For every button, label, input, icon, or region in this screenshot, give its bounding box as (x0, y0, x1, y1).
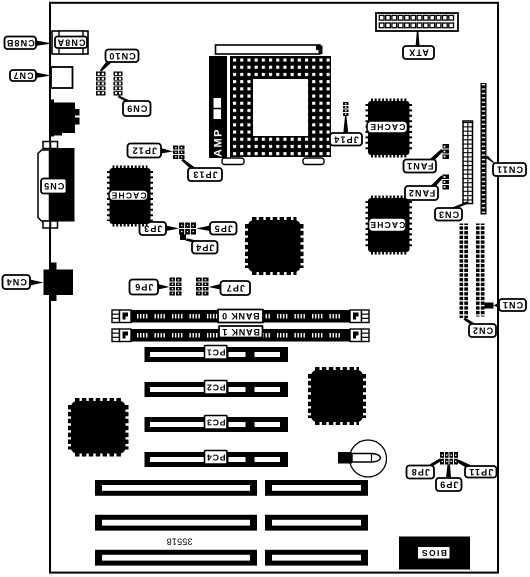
jumper block JP7 (196, 278, 209, 296)
pin header CN10 (96, 72, 106, 96)
svg-text:PC1: PC1 (206, 347, 226, 357)
label JP7 (221, 281, 251, 295)
label FAN1 (404, 160, 437, 173)
label CN8B (5, 37, 37, 50)
connector CN4 (44, 263, 74, 302)
label CN9 (123, 101, 151, 116)
label JP5 (210, 222, 237, 235)
svg-text:JP4: JP4 (195, 242, 214, 252)
chip CACHE U2 (mid right) (368, 198, 411, 253)
label JP8 (407, 466, 435, 479)
leader line to CN10 (100, 62, 112, 72)
connector CN11 (single row pin strip) (481, 83, 487, 215)
label JP9 (436, 478, 462, 491)
svg-text:BANK 1: BANK 1 (222, 327, 260, 337)
svg-text:35518: 35518 (166, 537, 192, 547)
svg-text:JP11: JP11 (468, 467, 493, 477)
svg-text:PC3: PC3 (206, 417, 226, 427)
leader line to CN1 (494, 303, 500, 309)
leader line to FAN1 (429, 149, 444, 160)
svg-text:JP9: JP9 (439, 480, 458, 490)
label JP14 (330, 133, 362, 146)
leader line to JP5 (196, 226, 210, 232)
svg-text:FAN1: FAN1 (406, 161, 433, 171)
CPU socket feet (222, 158, 324, 165)
chip CACHE U3 (left) (109, 168, 151, 225)
fan header FAN2 (443, 175, 450, 190)
leader line to CN9 (118, 96, 131, 102)
label CN3 (435, 208, 462, 221)
jumper block JP3/JP4/JP5 (179, 223, 196, 235)
jumper JP4 extra cell (180, 235, 186, 241)
label FAN2 (405, 186, 438, 200)
ISA slot row 1 right segment (265, 480, 368, 496)
label JP12 (128, 144, 162, 158)
leader line to JP11 (457, 460, 472, 468)
ISA slot row 1 left segment (95, 480, 257, 496)
leader line to JP7 (209, 284, 221, 290)
label JP3 (140, 222, 167, 235)
svg-text:CN10: CN10 (108, 51, 135, 61)
label CN8A (55, 37, 87, 49)
pin header CN9 (114, 72, 123, 96)
svg-text:CN1: CN1 (502, 300, 523, 310)
label CN11 (493, 163, 526, 176)
connector CN3 strip (white grid) (463, 121, 473, 204)
PCI slot PC4 (145, 452, 289, 467)
connector CN2 strip (460, 224, 469, 319)
svg-text:CN3: CN3 (438, 209, 459, 219)
svg-text:CN7: CN7 (12, 71, 33, 81)
label BANK 1 (219, 326, 263, 338)
CPU socket lever bar (216, 45, 323, 54)
connector CN5 (DB25 parallel port) (38, 142, 75, 229)
label CN4 (3, 275, 31, 289)
leader line to CN11 (486, 156, 499, 168)
leader line to FAN2 (430, 176, 444, 187)
svg-text:JP13: JP13 (192, 170, 217, 180)
jumper block JP14 (343, 102, 349, 116)
leader line to JP14 (343, 116, 348, 133)
svg-text:CACHE: CACHE (110, 190, 146, 200)
PCI slot PC2 (145, 382, 289, 397)
label JP6 (130, 280, 159, 295)
label JP13 (188, 168, 222, 181)
leader line to JP8 (428, 459, 442, 466)
label ATX (403, 46, 434, 59)
connector CN8A (keyboard) (52, 31, 88, 54)
chip chipset U6 (70, 400, 127, 455)
label PC4 (205, 451, 228, 465)
leader line to JP3 (166, 226, 179, 232)
svg-text:JP12: JP12 (132, 146, 157, 156)
svg-text:AMP: AMP (213, 128, 225, 157)
svg-text:JP5: JP5 (214, 223, 233, 233)
connector CN7 (white square) (51, 67, 73, 88)
svg-text:FAN2: FAN2 (408, 188, 435, 198)
ISA slot row 3 left segment (95, 550, 257, 566)
label CN5 (41, 179, 67, 194)
svg-text:BIOS: BIOS (421, 548, 447, 558)
PCI slot PC1 (145, 347, 289, 362)
ISA slot row 3 right segment (265, 550, 368, 566)
chip chipset U4 (247, 219, 302, 273)
label CN2 (469, 324, 496, 337)
ISA slot row 2 right segment (265, 515, 368, 531)
svg-text:CN5: CN5 (43, 181, 64, 191)
CN1 tab (485, 303, 494, 309)
svg-text:CN11: CN11 (496, 165, 523, 175)
label PC3 (205, 416, 228, 430)
svg-text:JP8: JP8 (411, 467, 430, 477)
chip chipset U5 (310, 369, 364, 423)
label PC1 (205, 346, 228, 360)
connector CN1 strip (476, 224, 485, 317)
fan header FAN1 (443, 144, 450, 159)
svg-text:JP6: JP6 (134, 282, 153, 292)
PCI slot PC3 (145, 417, 289, 432)
leader line to CN7 (36, 73, 51, 79)
svg-text:CACHE: CACHE (369, 220, 405, 230)
svg-text:CN2: CN2 (472, 326, 493, 336)
label CN10 (106, 50, 139, 63)
label PC2 (205, 381, 228, 395)
jumper block JP8/JP9/JP11 (440, 452, 458, 465)
label CN1 (499, 299, 526, 311)
chip CACHE U1 (top right) (367, 101, 410, 156)
svg-text:CN8A: CN8A (57, 37, 86, 47)
svg-text:ATX: ATX (408, 48, 429, 58)
battery (338, 440, 387, 477)
leader line to JP13 (181, 159, 195, 168)
leader line to CN3 (450, 202, 469, 209)
black connector below CN7 (49, 100, 80, 137)
svg-text:JP14: JP14 (333, 134, 358, 144)
leader line to JP6 (158, 284, 170, 290)
jumper block JP12/JP13 (173, 146, 185, 160)
ATX power connector (376, 13, 458, 31)
leader line to CN8B (37, 41, 53, 46)
svg-text:CN9: CN9 (126, 104, 147, 114)
svg-text:PC2: PC2 (206, 382, 226, 392)
jumper block JP6 (170, 278, 182, 296)
svg-text:JP7: JP7 (226, 283, 245, 293)
label CN7 (10, 70, 36, 81)
leader line to ATX (416, 31, 420, 46)
svg-text:BANK 0: BANK 0 (221, 311, 259, 321)
svg-text:CN8B: CN8B (6, 38, 35, 48)
CPU socket AMP bar (209, 56, 227, 158)
DIMM slot BANK 0 (112, 310, 369, 323)
svg-text:CN4: CN4 (6, 277, 27, 287)
BIOS chip (399, 537, 470, 570)
leader line to CN4 (30, 280, 44, 286)
DIMM slot BANK 1 (112, 329, 369, 342)
CPU socket body (pin grid) (230, 56, 331, 157)
label JP11 (465, 466, 497, 478)
leader line to JP12 (161, 148, 173, 154)
label BANK 0 (218, 310, 263, 323)
svg-text:CACHE: CACHE (369, 122, 405, 132)
label JP4 (192, 241, 218, 254)
leader line to JP9 (446, 465, 451, 479)
leader line to JP4 (185, 238, 198, 242)
ISA slot row 2 left segment (95, 515, 257, 531)
svg-text:PC4: PC4 (206, 452, 226, 462)
leader line to CN2 (464, 318, 477, 325)
